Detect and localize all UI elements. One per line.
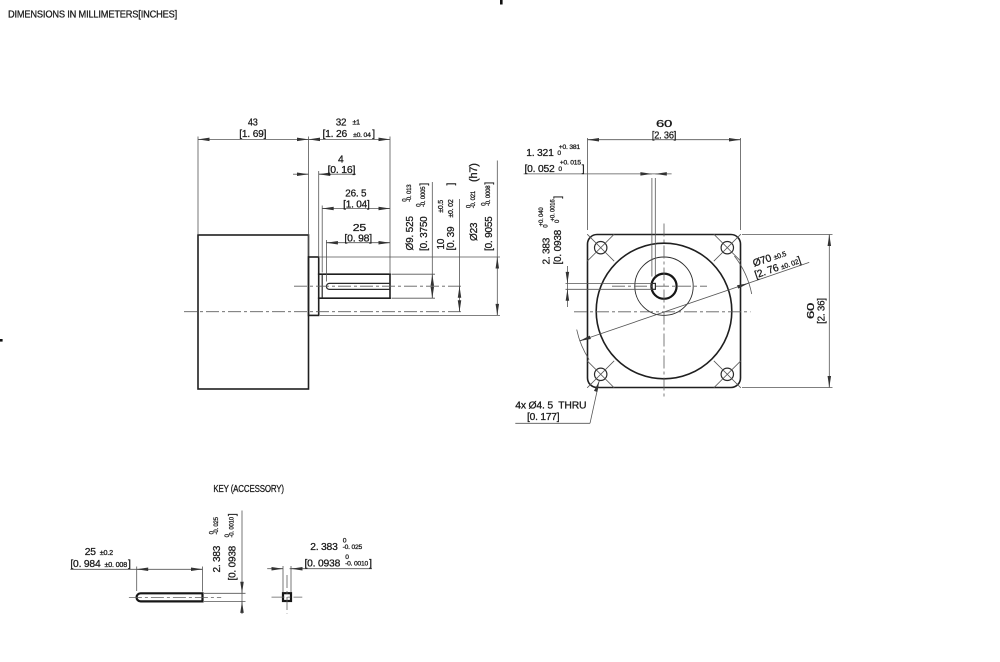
svg-text:[2. 36]: [2. 36]	[817, 298, 828, 324]
svg-text:[1. 69]: [1. 69]	[239, 129, 266, 140]
svg-text:60: 60	[656, 119, 673, 130]
svg-text:25: 25	[353, 223, 367, 234]
svg-text:4: 4	[338, 154, 344, 165]
svg-text:KEY (ACCESSORY): KEY (ACCESSORY)	[213, 484, 284, 495]
svg-text:[1. 04]: [1. 04]	[343, 200, 370, 211]
svg-text:[0. 16]: [0. 16]	[328, 165, 356, 176]
svg-text:[2. 36]: [2. 36]	[652, 131, 677, 142]
svg-text:±1: ±1	[353, 120, 361, 127]
svg-text:[0. 177]: [0. 177]	[527, 412, 560, 423]
svg-text:25±0.2: 25±0.2	[85, 547, 113, 558]
svg-text:[0. 98]: [0. 98]	[344, 234, 372, 245]
svg-text:26. 5: 26. 5	[345, 189, 366, 200]
svg-text:(h7): (h7)	[468, 163, 480, 182]
svg-text:43: 43	[248, 118, 258, 129]
svg-text:4x Ø4. 5 THRU: 4x Ø4. 5 THRU	[515, 400, 586, 411]
svg-text:32: 32	[336, 118, 347, 129]
svg-text:60: 60	[806, 302, 817, 319]
svg-text:DIMENSIONS IN MILLIMETERS[INCH: DIMENSIONS IN MILLIMETERS[INCHES]	[8, 10, 177, 21]
